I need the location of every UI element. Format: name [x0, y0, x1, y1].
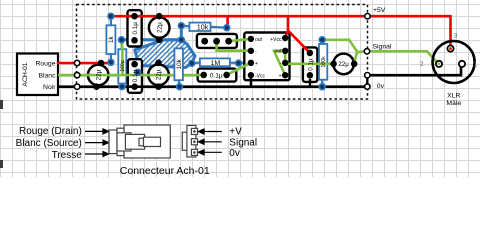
wire blue 10k horizontal leads	[181, 26, 227, 28]
node 10kv bottom	[177, 84, 183, 90]
terminal 0v upper	[365, 73, 370, 78]
terminal Blanc	[74, 72, 79, 77]
wire blue 1k bottom lead	[110, 54, 112, 63]
svg-text:Tresse: Tresse	[52, 150, 83, 161]
capacitor C1 pins	[131, 13, 138, 20]
svg-text:Connecteur Ach-01: Connecteur Ach-01	[120, 165, 210, 177]
svg-text:Blanc: Blanc	[38, 72, 56, 79]
op-amp U1 body	[244, 33, 289, 81]
resistor 10k horizontal	[189, 23, 210, 31]
connector ACH-01 box	[17, 54, 58, 96]
svg-text:Rouge: Rouge	[35, 60, 55, 67]
blue hatched region	[135, 40, 195, 68]
svg-text:1k: 1k	[108, 36, 115, 44]
edge smudge marks	[0, 100, 3, 109]
resistor 1k	[106, 25, 115, 54]
svg-text:+V: +V	[229, 127, 242, 138]
capacitor C4 0.1u body	[303, 47, 318, 82]
capacitor C3 0.1u body	[198, 69, 237, 82]
svg-text:0v: 0v	[229, 148, 240, 159]
arrow 0v	[204, 151, 222, 153]
wire red diag to C4	[288, 31, 310, 53]
node 1M left	[189, 60, 195, 66]
legend plug drawing	[109, 125, 170, 158]
wire red drop to 10k	[226, 16, 229, 28]
wire blue 1M leads	[192, 61, 247, 64]
wire blue band node(121.5,39.8) to node(181.3,39.8)	[122, 38, 182, 41]
XLR male connector	[433, 41, 475, 83]
capacitor 22u B pins	[156, 13, 163, 20]
wire black border link	[366, 75, 368, 86]
svg-text:10k: 10k	[176, 58, 183, 69]
svg-text:0.1µ: 0.1µ	[210, 73, 223, 80]
svg-text:3: 3	[454, 32, 458, 39]
wire blue vertical to 10k node	[180, 26, 183, 40]
capacitor 22u C pins	[155, 60, 162, 67]
svg-text:0v: 0v	[377, 83, 385, 90]
node band right	[178, 37, 184, 43]
terminal 0v lower	[365, 84, 370, 89]
arrow Rouge	[85, 130, 104, 132]
svg-text:+5V: +5V	[373, 7, 386, 14]
terminal Rouge	[74, 60, 79, 65]
legend left labels	[16, 126, 83, 161]
wire red Rouge	[58, 62, 110, 65]
node 1M right	[236, 60, 242, 66]
wire green out2 to 22u D	[285, 51, 333, 64]
wire blue 1k top lead	[110, 16, 112, 26]
wire black Noir ground rail	[58, 85, 365, 88]
capacitor C1 0.1u body	[128, 10, 142, 46]
XLR pin 2	[436, 61, 442, 67]
wire red drop to +Vcc	[285, 16, 288, 38]
svg-text:10k: 10k	[197, 23, 209, 32]
op-amp U1 pins right	[282, 35, 288, 41]
svg-text:22µ: 22µ	[95, 69, 102, 80]
wire green spur to 22u D	[354, 52, 357, 62]
legend left arrows	[85, 129, 109, 157]
capacitor C2 pins	[131, 61, 138, 68]
svg-text:Blanc (Source): Blanc (Source)	[16, 138, 82, 149]
header 3-pin	[197, 34, 237, 48]
svg-text:Signal: Signal	[373, 44, 392, 51]
header pins	[201, 38, 208, 45]
terminal Signal	[364, 49, 369, 54]
wire green header to minus	[217, 42, 251, 51]
wire green op-amp internal	[274, 51, 285, 75]
resistor 100k	[319, 44, 327, 80]
node 1k bottom	[108, 59, 114, 65]
dashed module border	[77, 5, 368, 100]
node 160u top	[119, 37, 125, 43]
svg-text:Noir: Noir	[43, 84, 56, 91]
op-amp U1 pins left	[248, 36, 254, 42]
svg-text:22µ: 22µ	[156, 69, 163, 80]
legend right labels	[229, 127, 257, 159]
wire nodes blue	[108, 13, 325, 89]
wire blue 160u bottom lead	[121, 83, 123, 87]
svg-text:out: out	[255, 37, 263, 43]
terminal Noir	[74, 84, 79, 89]
svg-text:+Vcc: +Vcc	[270, 37, 282, 43]
node C2 tentacle	[135, 69, 141, 75]
capacitor C4 pins	[307, 50, 314, 57]
svg-text:Mâle: Mâle	[446, 100, 461, 107]
wire black C4 stub	[309, 79, 311, 87]
svg-text:100k: 100k	[321, 56, 327, 68]
svg-text:0.1µ: 0.1µ	[132, 22, 139, 35]
svg-text:0.1µ: 0.1µ	[307, 58, 314, 71]
svg-text:+: +	[279, 73, 282, 79]
svg-text:XLR: XLR	[447, 92, 460, 99]
wire green header to out	[229, 39, 251, 41]
svg-text:2: 2	[420, 61, 424, 68]
resistor 10k vertical	[174, 48, 183, 80]
wire black -Vcc drop	[250, 75, 252, 87]
legend 3-pin connector drawing	[182, 125, 197, 157]
wire green signal out	[322, 40, 364, 52]
wire blue 100k leads	[321, 40, 323, 87]
node 10k right	[224, 25, 230, 31]
svg-text:1: 1	[474, 61, 478, 68]
terminal +5V	[365, 14, 370, 19]
svg-text:1M: 1M	[211, 60, 221, 67]
capacitor 160u	[118, 49, 126, 83]
svg-text:22µ: 22µ	[156, 22, 163, 33]
node 100k bottom	[319, 84, 325, 90]
arrow +V	[204, 131, 222, 133]
wire red +5V rail	[111, 15, 365, 18]
capacitor 22u C body	[148, 65, 169, 86]
capacitor 22u A body	[88, 65, 109, 86]
svg-text:Rouge (Drain): Rouge (Drain)	[19, 126, 82, 137]
capacitor 22u D pins	[330, 61, 337, 68]
arrow Tresse	[85, 153, 104, 155]
svg-text:ACH-01: ACH-01	[22, 62, 29, 86]
capacitor C2 0.1u body	[128, 59, 142, 93]
capacitor 22u D body	[333, 54, 354, 75]
border terminals	[74, 14, 370, 90]
svg-text:0.1µ: 0.1µ	[132, 69, 139, 82]
wire blue 10k vertical bottom lead	[178, 80, 181, 87]
legend right arrows	[198, 129, 221, 155]
svg-text:160µ: 160µ	[120, 60, 126, 71]
wire green C3 to plus	[227, 63, 251, 75]
wire blue film cap C2 tentacle	[135, 64, 142, 72]
svg-text:Signal: Signal	[229, 137, 257, 148]
svg-text:-Vcc: -Vcc	[255, 73, 266, 79]
svg-text:out: out	[275, 49, 283, 55]
wire red right of border	[370, 16, 450, 47]
capacitor C3 pins	[200, 72, 207, 79]
arrow Blanc	[85, 142, 104, 144]
svg-text:+: +	[255, 61, 258, 67]
pin dots black	[93, 13, 357, 90]
arrow Signal	[204, 141, 222, 143]
resistor 1M	[200, 58, 230, 66]
wire black 0v out	[370, 67, 461, 76]
wire green 160u vertical	[120, 41, 123, 76]
node 10k left	[178, 23, 184, 29]
XLR pin 3	[447, 46, 453, 52]
wire green right of border	[370, 51, 439, 64]
XLR pin 1	[459, 61, 465, 67]
capacitor 22u B body	[149, 17, 170, 38]
node 1k top	[108, 13, 114, 19]
capacitor 22u A pins	[98, 60, 105, 67]
node 160u bottom	[119, 84, 125, 90]
svg-text:22µ: 22µ	[338, 61, 349, 68]
wire green Blanc row	[58, 74, 204, 77]
node 100k top	[319, 37, 325, 43]
